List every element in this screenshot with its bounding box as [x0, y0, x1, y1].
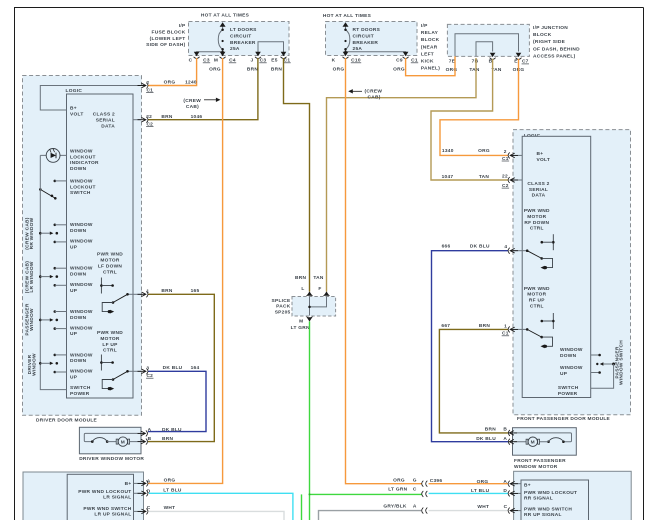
svg-text:PWR WND: PWR WND: [524, 286, 550, 292]
svg-text:UP: UP: [70, 245, 78, 251]
svg-text:E5: E5: [271, 58, 277, 64]
svg-text:SWITCH: SWITCH: [70, 190, 91, 196]
rr window switch (crew cab): [39, 224, 67, 244]
svg-text:164: 164: [191, 365, 200, 371]
wire DK BLU 164 (DDM pin 3 to driver motor A): [148, 371, 206, 431]
svg-text:CAB): CAB): [186, 104, 199, 110]
svg-text:WINDOW SWITCH: WINDOW SWITCH: [619, 340, 625, 385]
crew cab callout right: [348, 88, 382, 100]
front passenger door module box: [513, 130, 631, 423]
svg-text:G: G: [413, 478, 417, 484]
lf down ctrl switch: [102, 293, 141, 314]
svg-text:WINDOW: WINDOW: [70, 325, 93, 331]
pin 1: [138, 289, 150, 298]
svg-text:DK BLU: DK BLU: [162, 427, 182, 433]
pin 2 (FPDM): [502, 149, 518, 162]
svg-text:DK BLU: DK BLU: [163, 365, 183, 371]
svg-text:RELAY: RELAY: [421, 30, 439, 36]
rotated label PASSENGER WINDOW SWITCH: [615, 340, 625, 385]
pin C (bottom left module): [134, 505, 151, 515]
wire ORG 1240 (fuse C to DDM pin 2): [148, 58, 197, 86]
svg-text:FRONT PASSENGER DOOR MODULE: FRONT PASSENGER DOOR MODULE: [517, 416, 611, 422]
svg-text:UP: UP: [70, 375, 78, 381]
svg-text:ORG: ORG: [393, 66, 405, 72]
pin E arrow: [516, 53, 522, 57]
pin 22 (FPDM): [502, 174, 518, 189]
svg-text:M: M: [121, 439, 125, 445]
junction block: I/P JUNCTION BLOCK box: [447, 24, 580, 59]
lr lockout module (bottom left): [23, 472, 144, 520]
svg-text:666: 666: [442, 243, 451, 249]
svg-text:SWITCH: SWITCH: [70, 385, 91, 391]
svg-text:B: B: [503, 427, 507, 433]
svg-text:BREAKER: BREAKER: [230, 40, 256, 46]
pin 3: [138, 366, 154, 379]
relay block: I/P RELAY BLOCK box: [326, 22, 441, 72]
svg-text:DRIVER DOOR MODULE: DRIVER DOOR MODULE: [36, 417, 98, 423]
rotated label PASSENGER WINDOW: [24, 303, 35, 336]
pin C (bottom right module): [508, 508, 521, 514]
driver window switch: [39, 354, 67, 374]
svg-text:1046: 1046: [191, 114, 203, 120]
fuse block internal wire breaker to pin C: [197, 52, 223, 55]
pin D (bottom left module): [134, 488, 151, 496]
svg-text:C9: C9: [396, 58, 403, 64]
svg-text:DRIVER WINDOW MOTOR: DRIVER WINDOW MOTOR: [79, 456, 144, 462]
svg-text:MOTOR: MOTOR: [100, 258, 119, 264]
pwr wnd motor lf down ctrl driver symbol: [100, 278, 114, 294]
svg-text:LOCKOUT: LOCKOUT: [70, 184, 96, 190]
wire BRN 667 (FPDM pin 1 to passenger motor B): [439, 329, 508, 433]
svg-text:TAN: TAN: [479, 174, 490, 180]
svg-text:POWER: POWER: [70, 391, 90, 397]
svg-text:(CREW: (CREW: [365, 88, 383, 94]
pin M arrow: [220, 52, 226, 56]
svg-text:WINDOW: WINDOW: [70, 266, 93, 272]
svg-text:WHT: WHT: [477, 504, 489, 510]
svg-text:J: J: [251, 58, 254, 64]
svg-text:B: B: [148, 436, 152, 442]
svg-text:PWR WND SWITCH: PWR WND SWITCH: [524, 507, 572, 513]
svg-text:FUSE BLOCK: FUSE BLOCK: [152, 29, 186, 35]
svg-text:TAN: TAN: [469, 67, 480, 73]
svg-text:LF DOWN: LF DOWN: [98, 263, 123, 269]
svg-text:BRN: BRN: [162, 436, 173, 442]
svg-text:PACK: PACK: [276, 304, 291, 310]
svg-text:ACCESS PANEL): ACCESS PANEL): [533, 53, 576, 59]
svg-text:RR UP SIGNAL: RR UP SIGNAL: [524, 512, 562, 518]
svg-text:1047: 1047: [442, 174, 454, 180]
wire WHT (pin C off-page): [149, 511, 284, 520]
svg-text:WINDOW: WINDOW: [560, 365, 583, 371]
pwr wnd motor lf up ctrl driver symbol: [100, 355, 114, 371]
svg-text:B+: B+: [537, 151, 544, 157]
svg-text:WINDOW: WINDOW: [29, 308, 35, 331]
pin K arrow: [343, 52, 349, 56]
svg-text:DK BLU: DK BLU: [476, 436, 496, 442]
svg-text:I/P: I/P: [179, 23, 186, 29]
svg-text:CIRCUIT: CIRCUIT: [353, 33, 374, 39]
svg-text:CLASS 2: CLASS 2: [93, 112, 115, 118]
svg-text:B+: B+: [524, 482, 531, 488]
lr window switch (crew cab): [39, 267, 67, 287]
wire ORG (relay K down to C396 G): [346, 58, 422, 484]
svg-text:LT DOORS: LT DOORS: [230, 27, 257, 33]
svg-text:RR SIGNAL: RR SIGNAL: [524, 495, 553, 501]
svg-text:M: M: [214, 58, 218, 64]
svg-text:I/P: I/P: [421, 23, 428, 29]
svg-text:SWITCH: SWITCH: [558, 385, 579, 391]
svg-text:I/P JUNCTION: I/P JUNCTION: [533, 25, 568, 31]
svg-text:UP: UP: [70, 288, 78, 294]
svg-text:DOWN: DOWN: [560, 353, 577, 359]
rf down ctrl switch: [513, 249, 553, 269]
pin 2: [138, 80, 154, 93]
svg-text:1: 1: [504, 324, 507, 330]
wire ORG crew cab feed (fuse M down to LR lockout module pin A): [148, 58, 223, 483]
svg-text:RF UP: RF UP: [529, 298, 545, 304]
rf down ctrl driver symbol: [541, 234, 555, 250]
passenger motor pin A: [476, 436, 517, 445]
circuit breaker LT DOORS 25A: [218, 22, 257, 52]
svg-text:FRONT PASSENGER: FRONT PASSENGER: [514, 458, 566, 464]
svg-text:BLOCK: BLOCK: [533, 32, 552, 38]
svg-text:WINDOW: WINDOW: [70, 178, 93, 184]
switch power rail: [40, 155, 66, 389]
svg-text:C: C: [413, 486, 417, 492]
svg-text:DATA: DATA: [532, 193, 546, 199]
svg-text:DATA: DATA: [101, 123, 115, 129]
svg-text:RR WINDOW: RR WINDOW: [29, 217, 35, 249]
svg-text:K: K: [332, 58, 336, 64]
svg-text:PWR WND: PWR WND: [97, 252, 123, 258]
wire WHT (C396 A to RR module pin C): [429, 510, 508, 512]
driver motor pin A: [138, 427, 183, 436]
svg-text:PWR WND SWITCH: PWR WND SWITCH: [83, 506, 131, 512]
svg-text:A: A: [413, 504, 417, 510]
svg-text:INDICATOR: INDICATOR: [70, 160, 99, 166]
svg-text:PWR WND LOCKOUT: PWR WND LOCKOUT: [78, 489, 131, 495]
svg-text:LR UP SIGNAL: LR UP SIGNAL: [94, 512, 131, 518]
wire LT GRN (splice M to C396 C and off-page): [302, 321, 422, 520]
svg-text:C: C: [189, 58, 193, 64]
svg-text:BRN: BRN: [485, 427, 496, 433]
svg-text:667: 667: [441, 323, 450, 329]
svg-text:PWR WND: PWR WND: [524, 208, 550, 214]
driver window motor: [79, 427, 144, 462]
svg-text:ORG: ORG: [333, 66, 345, 72]
junction block pin labels: [446, 59, 529, 73]
rotated label (CREW CAB) LR WINDOW: [24, 261, 35, 293]
svg-text:BRN: BRN: [161, 114, 172, 120]
window lockout indicator lamp: [40, 149, 66, 163]
svg-text:UP: UP: [70, 331, 78, 337]
svg-text:LEFT: LEFT: [421, 51, 434, 57]
svg-text:LR WINDOW: LR WINDOW: [29, 261, 35, 292]
crew cab callout left: [183, 98, 220, 110]
svg-text:165: 165: [191, 288, 200, 294]
svg-text:HOT AT ALL TIMES: HOT AT ALL TIMES: [201, 12, 250, 18]
svg-text:RF DOWN: RF DOWN: [524, 220, 549, 226]
svg-text:BLOCK: BLOCK: [421, 37, 440, 43]
svg-text:BREAKER: BREAKER: [353, 40, 379, 46]
svg-text:LT GRN: LT GRN: [388, 486, 407, 492]
wire ORG (relay C9 to junction 7E): [406, 56, 455, 75]
internal wire pin 2 to B+: [513, 154, 522, 156]
svg-text:CIRCUIT: CIRCUIT: [230, 33, 251, 39]
svg-text:2: 2: [504, 149, 507, 155]
svg-text:SERIAL: SERIAL: [529, 187, 548, 193]
svg-text:LOCKOUT: LOCKOUT: [70, 154, 96, 160]
svg-text:WINDOW: WINDOW: [70, 282, 93, 288]
svg-text:L: L: [301, 286, 304, 292]
svg-text:WHT: WHT: [164, 505, 176, 511]
svg-text:SERIAL: SERIAL: [96, 118, 115, 124]
svg-text:ORG: ORG: [164, 478, 176, 484]
pin C9 arrow: [403, 52, 409, 56]
svg-text:DOWN: DOWN: [70, 228, 87, 234]
svg-text:WINDOW: WINDOW: [70, 369, 93, 375]
pin B arrow: [490, 53, 496, 57]
svg-text:PANEL): PANEL): [421, 66, 440, 72]
svg-text:DOWN: DOWN: [70, 358, 87, 364]
passenger window switch: [39, 310, 67, 330]
svg-text:(LOWER LEFT: (LOWER LEFT: [150, 36, 186, 42]
splice pack SP205: [271, 286, 335, 331]
svg-text:B+: B+: [125, 481, 132, 487]
svg-text:ORG: ORG: [164, 80, 176, 86]
wire TAN (junction 7B to splice F): [327, 58, 477, 292]
svg-text:BRN: BRN: [247, 66, 258, 72]
wire BRN 1046 (fuse J to DDM pin 22): [148, 58, 258, 120]
svg-text:M: M: [531, 440, 535, 446]
wire ORG 1340 (junction E/C7 to FPDM pin 2): [440, 59, 519, 155]
svg-text:WINDOW: WINDOW: [70, 222, 93, 228]
svg-text:VOLT: VOLT: [537, 157, 551, 163]
svg-text:KICK: KICK: [421, 59, 434, 65]
svg-text:WINDOW: WINDOW: [31, 353, 37, 376]
svg-text:LT GRN: LT GRN: [291, 325, 310, 331]
rotated label DRIVER WINDOW: [27, 353, 38, 376]
internal wire class2 to pin 22: [133, 119, 142, 121]
svg-text:25A: 25A: [230, 46, 240, 52]
wire BRN (fuse E5 to splice L): [284, 58, 310, 292]
svg-text:22: 22: [502, 174, 508, 180]
passenger motor pin B: [485, 427, 517, 436]
wire GRY/BLK (off-page to C396 A): [319, 511, 422, 520]
svg-text:1340: 1340: [442, 148, 454, 154]
connector C396: [422, 478, 443, 513]
pin D (bottom right module): [508, 490, 521, 496]
svg-text:TAN: TAN: [313, 275, 324, 281]
junction block internal jumper 7E to E: [455, 34, 519, 56]
svg-text:(NEAR: (NEAR: [421, 44, 438, 50]
svg-text:PWR WND LOCKOUT: PWR WND LOCKOUT: [524, 490, 577, 496]
svg-text:BRN: BRN: [271, 66, 282, 72]
window lockout switch: [39, 180, 67, 200]
wire LT BLU (C396 C to RR module pin D): [429, 492, 508, 494]
wire DK BLU 666 (FPDM pin 4 to passenger motor A): [432, 251, 509, 442]
svg-text:MOTOR: MOTOR: [527, 214, 546, 220]
rotated label (CREW CAB) RR WINDOW: [24, 217, 35, 249]
pin 1 (FPDM): [502, 324, 518, 337]
passenger window switch contacts: [591, 354, 615, 389]
svg-text:HOT AT ALL TIMES: HOT AT ALL TIMES: [323, 13, 372, 19]
pin C arrow: [194, 52, 200, 56]
svg-text:3: 3: [146, 366, 149, 372]
svg-text:22: 22: [146, 114, 152, 120]
driver motor pin B: [138, 436, 174, 444]
svg-text:C: C: [504, 504, 508, 510]
svg-text:WINDOW: WINDOW: [560, 347, 583, 353]
internal wire pin 22 to class2: [513, 179, 522, 181]
svg-text:WINDOW: WINDOW: [70, 148, 93, 154]
pin 4 (FPDM): [504, 244, 518, 254]
svg-text:ORG: ORG: [478, 148, 490, 154]
svg-text:PWR WND: PWR WND: [97, 330, 123, 336]
pin 22: [138, 114, 154, 128]
svg-text:MOTOR: MOTOR: [100, 336, 119, 342]
svg-text:DK BLU: DK BLU: [470, 243, 490, 249]
svg-text:UP: UP: [560, 371, 568, 377]
svg-text:WINDOW: WINDOW: [70, 239, 93, 245]
circuit breaker RT DOORS 25A: [343, 22, 381, 52]
svg-text:M: M: [299, 319, 303, 325]
svg-text:1: 1: [146, 289, 149, 295]
fuse block pin labels: [189, 58, 291, 73]
svg-text:DOWN: DOWN: [70, 272, 87, 278]
svg-text:CAB): CAB): [368, 94, 381, 100]
svg-text:4: 4: [504, 244, 507, 250]
svg-text:B+: B+: [70, 106, 77, 112]
svg-text:OF DASH, BEHIND: OF DASH, BEHIND: [533, 46, 580, 52]
driver door module box: [23, 76, 142, 424]
svg-text:F: F: [318, 286, 321, 292]
pin A (bottom left module): [134, 478, 151, 486]
svg-text:BRN: BRN: [479, 323, 490, 329]
svg-text:2: 2: [146, 80, 149, 86]
pin A (bottom right module): [508, 481, 521, 487]
fuse block internal jumper J to E5: [258, 42, 284, 55]
svg-text:WINDOW: WINDOW: [70, 352, 93, 358]
svg-text:CLASS 2: CLASS 2: [527, 181, 549, 187]
fuse block: I/P FUSE BLOCK box: [146, 22, 289, 56]
pin E5 arrow: [281, 52, 287, 56]
svg-text:LR SIGNAL: LR SIGNAL: [103, 495, 131, 501]
wire TAN 1047 (junction B to FPDM pin 22): [431, 59, 508, 180]
svg-text:A: A: [503, 436, 507, 442]
svg-text:7B: 7B: [472, 59, 479, 65]
svg-text:CTRL: CTRL: [530, 226, 544, 232]
svg-text:(CREW: (CREW: [183, 98, 201, 104]
lf up ctrl switch: [102, 370, 141, 391]
rr lockout module (bottom right): [514, 471, 632, 520]
svg-text:WINDOW: WINDOW: [70, 309, 93, 315]
svg-text:LF UP: LF UP: [102, 342, 118, 348]
svg-text:(RIGHT SIDE: (RIGHT SIDE: [533, 39, 566, 45]
svg-text:E: E: [514, 59, 518, 65]
svg-text:WINDOW MOTOR: WINDOW MOTOR: [514, 464, 558, 470]
svg-text:C: C: [147, 505, 151, 511]
svg-text:CTRL: CTRL: [103, 269, 117, 275]
internal wire pin 2 to B+ VOLT: [40, 86, 141, 111]
svg-text:POWER: POWER: [558, 391, 578, 397]
svg-text:BRN: BRN: [295, 275, 306, 281]
rf up ctrl switch: [513, 328, 553, 348]
svg-text:1240: 1240: [185, 80, 197, 86]
svg-text:BRN: BRN: [161, 288, 172, 294]
svg-text:DOWN: DOWN: [70, 315, 87, 321]
svg-text:SP205: SP205: [275, 310, 291, 316]
svg-text:ORG: ORG: [209, 66, 221, 72]
svg-text:A: A: [147, 478, 151, 484]
svg-text:GRY/BLK: GRY/BLK: [383, 504, 407, 510]
front passenger window motor: [513, 428, 577, 470]
relay block internal wire breaker to pin C9: [346, 52, 406, 55]
relay block pin labels: [332, 58, 419, 73]
wire ORG (C396 G to RR module pin A): [429, 483, 508, 485]
svg-text:ORG: ORG: [393, 478, 405, 484]
svg-text:SPLICE: SPLICE: [271, 298, 291, 304]
svg-text:LOGIC: LOGIC: [66, 88, 83, 94]
svg-text:CTRL: CTRL: [530, 304, 544, 310]
svg-text:SIDE OF DASH): SIDE OF DASH): [146, 42, 185, 48]
svg-text:A: A: [148, 427, 152, 433]
wire BRN 165 (DDM pin 1 to driver motor B): [148, 294, 214, 441]
wire LT BLU (pin D off-page): [149, 493, 293, 520]
rf up ctrl driver symbol: [541, 313, 555, 329]
svg-text:MOTOR: MOTOR: [527, 292, 546, 298]
junction block internal jumper 7B to B: [476, 42, 493, 56]
svg-text:DOWN: DOWN: [70, 166, 87, 172]
svg-text:CTRL: CTRL: [103, 348, 117, 354]
svg-text:RT DOORS: RT DOORS: [353, 27, 381, 33]
pin J arrow: [255, 52, 261, 56]
svg-text:VOLT: VOLT: [70, 112, 84, 118]
